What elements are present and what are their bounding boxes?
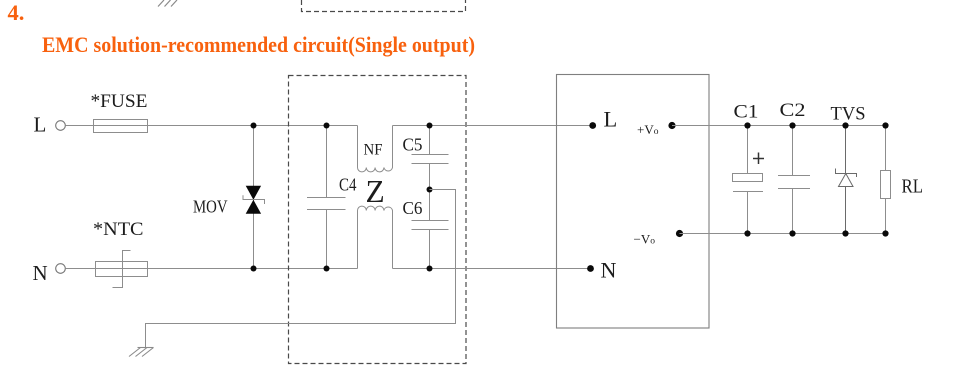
ground	[129, 348, 154, 357]
svg-text:RL: RL	[902, 177, 924, 198]
node -Vo pin	[676, 230, 683, 237]
node C4 top junction	[324, 123, 330, 129]
thermistor NTC strike	[113, 251, 131, 288]
node RL bottom	[882, 230, 888, 236]
wire N to supply	[393, 268, 591, 270]
svg-text:C4: C4	[339, 175, 357, 195]
wire L to supply	[393, 125, 593, 127]
node TVS bottom	[842, 230, 848, 236]
power supply box	[557, 75, 710, 329]
wire MOV branch	[253, 126, 255, 269]
svg-text:4.: 4.	[8, 0, 25, 25]
node L-MOV junction	[251, 123, 257, 129]
C1 polarity plus	[753, 153, 764, 165]
svg-text:EMC solution-recommended circu: EMC solution-recommended circuit(Single …	[42, 32, 475, 57]
node C6 bottom junction	[427, 266, 433, 272]
svg-text:MOV: MOV	[193, 197, 228, 217]
svg-text:Z: Z	[366, 174, 385, 209]
node L input pin	[589, 122, 596, 129]
node C5-C6 midpoint	[427, 187, 433, 193]
svg-text:*NTC: *NTC	[93, 219, 144, 240]
wire N line	[65, 268, 357, 270]
resistor RL	[881, 126, 891, 234]
svg-text:C5: C5	[403, 135, 423, 155]
node C1 bottom	[744, 230, 750, 236]
wire +Vo rail	[672, 125, 886, 127]
choke NF top winding	[358, 126, 393, 172]
terminal N circle	[56, 264, 66, 274]
thermistor NTC body	[96, 262, 148, 277]
svg-text:L: L	[604, 107, 618, 132]
node RL top	[882, 122, 888, 128]
capacitor C2	[778, 126, 810, 234]
capacitor C1 electrolytic	[733, 126, 764, 234]
svg-text:NF: NF	[364, 141, 383, 158]
svg-text:N: N	[33, 261, 48, 285]
svg-text:*FUSE: *FUSE	[91, 91, 148, 112]
fuse F1	[94, 120, 148, 133]
dashed filter box	[289, 76, 467, 364]
node TVS top	[842, 122, 848, 128]
svg-text:N: N	[601, 258, 617, 283]
capacitor C6	[412, 190, 449, 269]
node C2 top	[789, 122, 795, 128]
svg-text:C1: C1	[734, 102, 759, 123]
terminal L circle	[56, 121, 66, 131]
capacitor C4	[307, 126, 346, 269]
svg-text:TVS: TVS	[831, 104, 866, 125]
wire -Vo rail	[680, 233, 886, 235]
node +Vo pin	[668, 122, 675, 129]
capacitor C5	[412, 126, 449, 190]
node N-MOV junction	[251, 266, 257, 272]
node N input pin	[587, 265, 594, 272]
diode TVS	[836, 126, 857, 234]
choke NF bottom winding	[358, 206, 393, 268]
svg-text:C6: C6	[403, 198, 423, 218]
svg-text:L: L	[34, 113, 47, 137]
dashed box remnant (top, cut off)	[302, 0, 466, 12]
node C2 bottom	[789, 230, 795, 236]
svg-text:C2: C2	[780, 100, 806, 121]
node C4 bottom junction	[324, 266, 330, 272]
node C5 top junction	[427, 123, 433, 129]
wire L line	[65, 125, 357, 127]
wire earth run	[146, 190, 456, 348]
varistor MOV symbol	[243, 186, 265, 214]
earth symbol remnant (top, cut off)	[158, 0, 177, 7]
node C1 top	[744, 122, 750, 128]
